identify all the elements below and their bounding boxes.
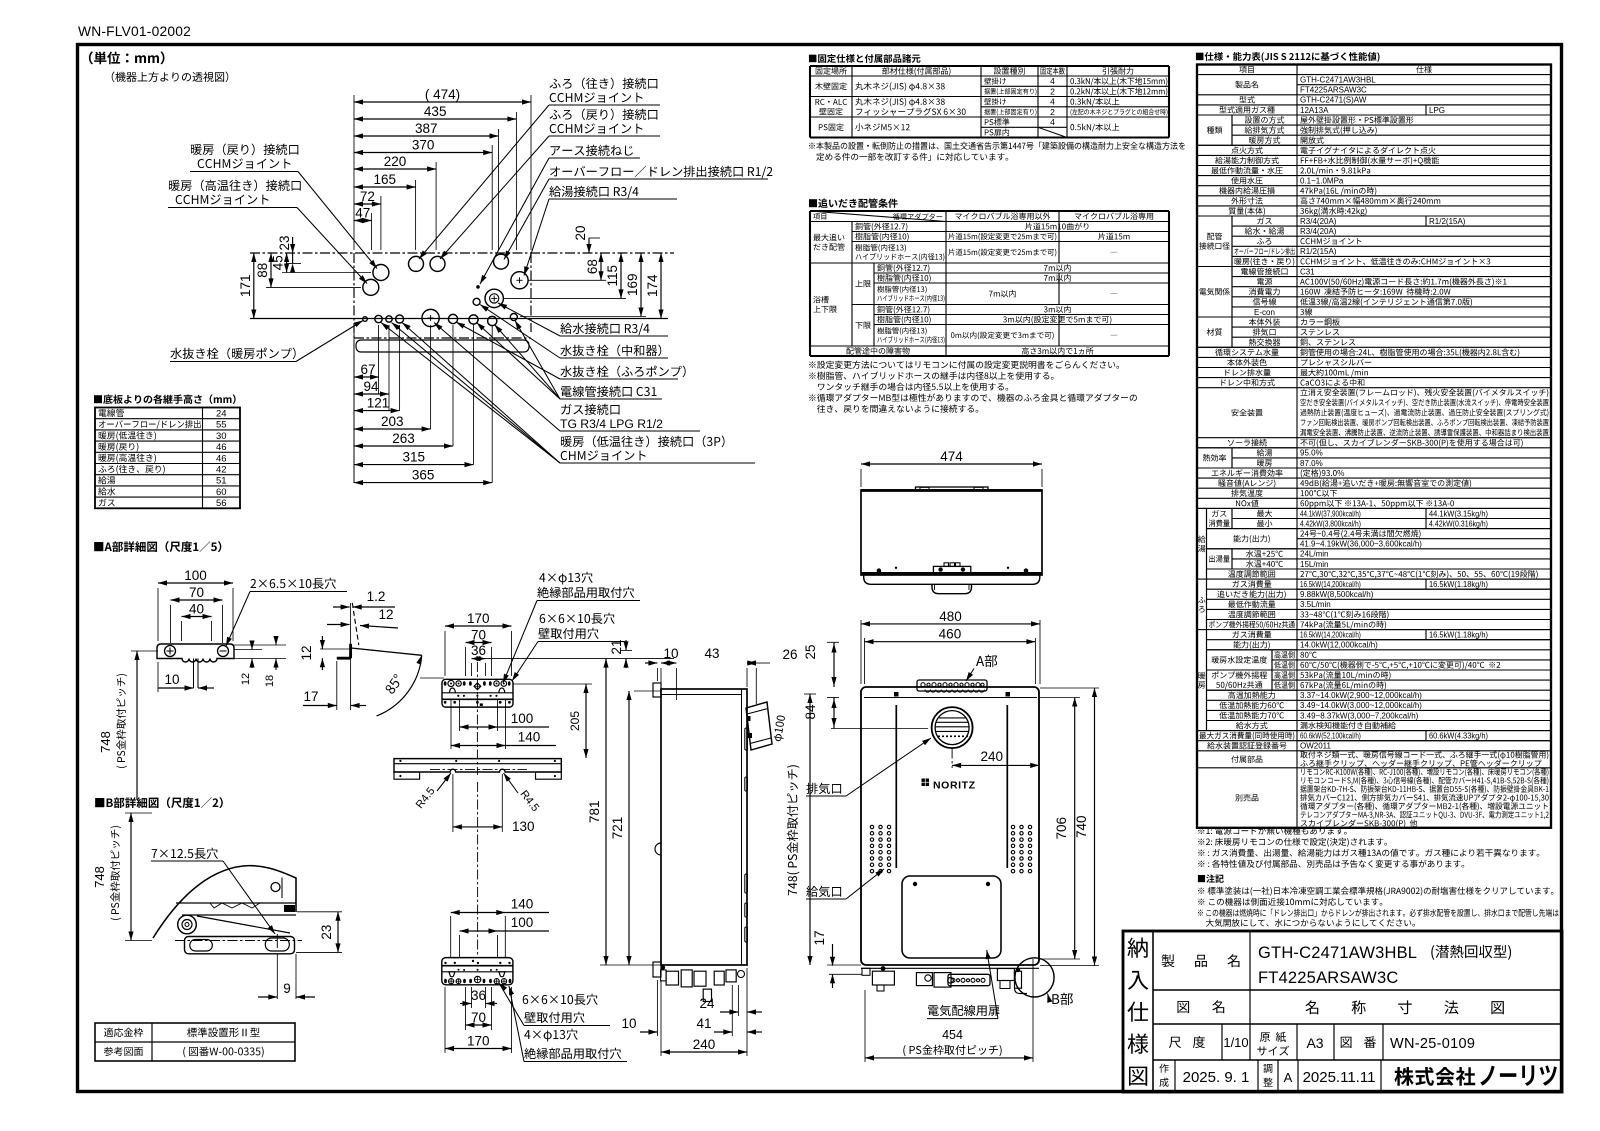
svg-text:2: 2 <box>1050 86 1055 96</box>
svg-text:41: 41 <box>696 1016 711 1031</box>
top view: unit bottom edge <box>354 337 531 339</box>
svg-text:12: 12 <box>299 645 314 660</box>
svg-text:3.49~8.37kW(3,000~7,200kcal/h): 3.49~8.37kW(3,000~7,200kcal/h) <box>1300 711 1419 720</box>
svg-text:LPG: LPG <box>1429 106 1445 115</box>
lower bracket: bottom hole row <box>449 979 454 984</box>
side view: bottom-left tab <box>653 962 661 977</box>
reheat piping notes <box>809 361 1119 369</box>
svg-text:435: 435 <box>424 104 447 119</box>
svg-text:25: 25 <box>803 644 818 659</box>
svg-text:FT4225ARSAW3C: FT4225ARSAW3C <box>1258 969 1398 987</box>
svg-text:748: 748 <box>92 866 107 888</box>
top view: left labels with leaders <box>191 144 298 156</box>
side view: 781/721 dims <box>600 964 661 966</box>
title block: product name row <box>1249 931 1251 1024</box>
detail A1: screws <box>165 646 176 657</box>
svg-text:R4.5: R4.5 <box>517 788 541 814</box>
top view: unit top edge line <box>250 252 674 254</box>
front view: electrical access panel <box>902 876 1001 958</box>
svg-text:2025. 9. 1: 2025. 9. 1 <box>1183 1069 1250 1086</box>
detail A1: label 2x6.5x10 slot <box>250 578 335 589</box>
svg-text:203: 203 <box>381 414 404 429</box>
front view: bottom fittings <box>861 967 1039 969</box>
fixing spec table <box>810 65 1169 67</box>
lower bracket: dims above (140/100) <box>450 916 452 958</box>
fixing spec table heading <box>809 54 921 63</box>
svg-text:4: 4 <box>1050 97 1055 107</box>
detail A1: 748 pitch dimension <box>131 650 158 652</box>
front view: 25 dim <box>827 641 839 643</box>
svg-text:4.42kW(3,800kcal/h): 4.42kW(3,800kcal/h) <box>1300 519 1361 529</box>
svg-text:E-con: E-con <box>1254 308 1275 317</box>
spec table notes <box>1198 827 1347 835</box>
svg-text:130: 130 <box>512 819 535 834</box>
top view: left vertical dimensions <box>282 272 371 274</box>
A2: dim 205 <box>513 683 592 685</box>
svg-text:72: 72 <box>360 189 375 204</box>
svg-text:60.6kW(4.33kg/h): 60.6kW(4.33kg/h) <box>1429 731 1488 740</box>
detail A1: top fixing bracket <box>157 644 234 662</box>
detail A1: dims 12/18 <box>234 644 286 646</box>
top view: unit left edge <box>353 253 355 338</box>
applicable frame table <box>95 1023 295 1061</box>
angle: dim 1.2 <box>333 606 350 608</box>
svg-text:24L/min: 24L/min <box>1300 550 1328 559</box>
svg-text:4: 4 <box>1050 76 1055 86</box>
front view: 454 pitch dim bottom <box>864 990 866 1062</box>
svg-text:170: 170 <box>467 1034 490 1049</box>
front view: 17 dim <box>827 964 861 966</box>
svg-text:56: 56 <box>216 498 227 509</box>
svg-text:1.2: 1.2 <box>367 589 386 604</box>
A2: dims above <box>444 631 446 676</box>
front view: 748 pitch dim left <box>804 693 816 695</box>
spec table <box>1239 66 1253 73</box>
detail B: lower plate with slots <box>185 937 295 954</box>
svg-text:263: 263 <box>392 431 415 446</box>
svg-text:454: 454 <box>942 1028 963 1042</box>
angle: dim 17 <box>336 661 338 710</box>
svg-text:740: 740 <box>1074 815 1089 838</box>
front view: 84 dim <box>827 697 839 699</box>
top view: connection holes <box>373 265 389 281</box>
title block: scale row <box>1221 1024 1223 1060</box>
detail B: fan-shaped bracket <box>153 866 296 938</box>
svg-text:36: 36 <box>471 988 486 1003</box>
svg-text:87.0%: 87.0% <box>1300 459 1323 468</box>
title block <box>1123 931 1562 1092</box>
svg-text:387: 387 <box>415 121 438 136</box>
detail A angle piece (85 deg) <box>350 603 352 710</box>
top view: unit bottom row line <box>250 318 668 320</box>
front view: top bracket (A part) <box>917 680 987 691</box>
middle wall rail with R4.5 notches <box>394 759 561 772</box>
svg-text:47: 47 <box>355 206 370 221</box>
lower bracket: dims below (36/70/170) <box>471 987 473 1008</box>
svg-text:R4.5: R4.5 <box>414 785 438 811</box>
svg-text:165: 165 <box>374 172 397 187</box>
svg-text:748: 748 <box>98 731 113 753</box>
svg-text:A3: A3 <box>1306 1035 1323 1051</box>
front view: door seam lines <box>895 705 897 868</box>
svg-text:17: 17 <box>303 689 318 704</box>
svg-text:70: 70 <box>471 1010 486 1025</box>
top view: top dimensions <box>354 101 531 103</box>
svg-text:70: 70 <box>471 628 486 643</box>
svg-text:95.0%: 95.0% <box>1300 449 1323 458</box>
svg-text:2025.11.11: 2025.11.11 <box>1303 1069 1376 1086</box>
svg-text:17: 17 <box>812 930 827 945</box>
svg-text:46: 46 <box>216 442 227 453</box>
rail: dim 130 <box>452 774 454 832</box>
angle: dim 12 left <box>320 648 350 650</box>
A2: dim 36 on long line <box>472 658 486 660</box>
svg-text:44.1kW(37,900kcal/h): 44.1kW(37,900kcal/h) <box>1300 510 1361 519</box>
front cap (top plan) <box>861 490 1042 575</box>
top view: unit right edge <box>530 253 532 332</box>
A2: centre diamond hole <box>474 683 481 690</box>
svg-text:3.49~14.0kW(3,000~12,000kcal/h: 3.49~14.0kW(3,000~12,000kcal/h) <box>1300 701 1422 710</box>
reheat piping table heading <box>809 198 898 208</box>
top view: right vertical dimensions <box>589 237 600 239</box>
svg-text:NORITZ: NORITZ <box>933 780 976 792</box>
detail A1: dim 10 <box>157 662 159 692</box>
top view: bottom dimension extension lines <box>353 325 355 483</box>
svg-text:170: 170 <box>467 611 490 626</box>
detail B: 7x12.5 slot label <box>152 848 218 859</box>
svg-text:121: 121 <box>367 396 390 411</box>
top view: top dimension extension lines <box>353 95 355 250</box>
side view: bottom fittings <box>661 970 667 981</box>
title block: drawing name row <box>1177 1000 1224 1013</box>
svg-text:315: 315 <box>402 450 425 465</box>
front view: bottom bracket (below body) <box>948 974 990 985</box>
svg-text:88: 88 <box>255 263 270 278</box>
svg-text:46: 46 <box>216 453 227 464</box>
svg-text:20: 20 <box>573 225 588 240</box>
svg-text:140: 140 <box>511 897 534 912</box>
svg-text:240: 240 <box>693 1037 716 1052</box>
A2: keyhole bells <box>449 688 455 693</box>
front view: 706/740 dims right <box>1040 697 1080 699</box>
svg-text:240: 240 <box>981 749 1004 764</box>
angle: dim 12 tilt <box>327 624 350 626</box>
fixing table note <box>809 142 1185 150</box>
svg-text:45: 45 <box>271 255 286 270</box>
cap: duct below <box>932 584 972 593</box>
svg-text:GTH-C2471(S)AW: GTH-C2471(S)AW <box>1300 96 1367 105</box>
svg-text:44.1kW(3.15kg/h): 44.1kW(3.15kg/h) <box>1429 509 1488 518</box>
front view: body <box>861 687 1039 965</box>
svg-text:12: 12 <box>378 607 393 622</box>
A2: dots <box>457 695 459 697</box>
lower bracket: keyhole slots <box>449 972 455 977</box>
svg-text:460: 460 <box>939 627 962 642</box>
svg-text:68: 68 <box>585 259 600 274</box>
svg-text:171: 171 <box>238 274 253 297</box>
svg-text:26: 26 <box>782 647 797 662</box>
svg-text:FT4225ARSAW3C: FT4225ARSAW3C <box>1300 86 1367 95</box>
svg-text:40: 40 <box>189 602 204 617</box>
svg-text:70: 70 <box>189 585 204 600</box>
side view: bottom dims 24/41/240/10 <box>737 985 739 1016</box>
svg-text:14.0kW(12,000kcal/h): 14.0kW(12,000kcal/h) <box>1300 641 1378 650</box>
detail B: dim 23 <box>297 911 342 913</box>
side view: left bump <box>655 843 661 855</box>
svg-text:GTH-C2471AW3HBL: GTH-C2471AW3HBL <box>1300 76 1376 85</box>
svg-text:OW2011: OW2011 <box>1300 742 1332 751</box>
svg-text:16.5kW(14,200kcal/h): 16.5kW(14,200kcal/h) <box>1300 580 1361 589</box>
detail B: arm <box>176 902 296 904</box>
svg-text:9: 9 <box>283 981 291 996</box>
svg-text:R3/4(20A): R3/4(20A) <box>1300 227 1337 236</box>
svg-text:R3/4(20A): R3/4(20A) <box>1300 217 1337 226</box>
front view: wiring door label <box>928 1005 999 1016</box>
svg-text:474: 474 <box>940 449 963 464</box>
svg-text:TG R3/4 LPG R1/2: TG R3/4 LPG R1/2 <box>560 417 663 431</box>
svg-text:100: 100 <box>184 568 207 583</box>
side view: body <box>661 689 747 965</box>
svg-text:100: 100 <box>511 711 534 726</box>
front view: NORITZ logo <box>922 779 925 782</box>
svg-text:10: 10 <box>621 1016 636 1031</box>
svg-text:100: 100 <box>511 915 534 930</box>
svg-text:169: 169 <box>625 273 640 296</box>
svg-text:R1/2(15A): R1/2(15A) <box>1300 247 1337 256</box>
svg-text:2: 2 <box>1050 107 1055 117</box>
svg-text:12: 12 <box>240 673 252 685</box>
svg-text:43: 43 <box>704 646 719 661</box>
rail: lower tabs <box>394 772 420 779</box>
side view: top-left tab <box>653 683 661 697</box>
long horizontal reference line to side view <box>486 658 675 660</box>
svg-text:42: 42 <box>216 465 227 476</box>
svg-text:3.5L/min: 3.5L/min <box>1300 600 1331 609</box>
svg-text:23: 23 <box>319 925 334 940</box>
NORITZ company logo <box>1394 1067 1475 1086</box>
front view: vent hole groups <box>870 825 873 828</box>
svg-text:140: 140 <box>518 730 541 745</box>
detail A1: dims <box>157 588 159 641</box>
svg-text:24: 24 <box>699 996 715 1011</box>
svg-text:21: 21 <box>609 639 624 654</box>
svg-text:55: 55 <box>216 420 227 431</box>
side view: exhaust duct (tilted) <box>746 702 772 750</box>
A2: top hole row <box>448 680 454 686</box>
detail A2: wall mounting bracket <box>442 679 513 707</box>
svg-text:94: 94 <box>363 379 379 394</box>
svg-text:4.42kW(0.316kg/h): 4.42kW(0.316kg/h) <box>1429 519 1488 529</box>
detail B: 748 pitch dim <box>125 812 152 814</box>
svg-text:9.88kW(8,500kcal/h): 9.88kW(8,500kcal/h) <box>1300 590 1374 599</box>
svg-text:18: 18 <box>264 675 276 687</box>
front view: exhaust outlet <box>932 707 973 748</box>
svg-text:4: 4 <box>1050 117 1055 127</box>
svg-text:1/10: 1/10 <box>1223 1035 1248 1050</box>
svg-text:( 474): ( 474) <box>425 87 460 102</box>
svg-text:10: 10 <box>663 646 678 661</box>
title block: date row <box>1174 1060 1176 1092</box>
svg-text:15L/min: 15L/min <box>1300 560 1328 569</box>
joint height table heading <box>94 394 236 404</box>
lower bracket: labels right <box>523 994 598 1005</box>
svg-text:365: 365 <box>412 468 435 483</box>
svg-text:WN-25-0109: WN-25-0109 <box>1390 1036 1475 1052</box>
spec table heading <box>1196 52 1380 62</box>
A2: dim 21 <box>625 640 627 650</box>
front view: A part label <box>976 655 997 667</box>
detail A heading <box>94 541 221 552</box>
svg-text:67: 67 <box>360 362 375 377</box>
svg-text:370: 370 <box>412 138 435 153</box>
svg-text:A: A <box>1284 1070 1293 1085</box>
svg-text:30: 30 <box>216 431 227 442</box>
front view: drain elbow in B area <box>1015 971 1022 988</box>
svg-text:60: 60 <box>216 487 227 498</box>
front view: 240 dim <box>952 764 1039 766</box>
side view: top dims 10/43/26 <box>656 668 658 681</box>
svg-text:205: 205 <box>568 711 582 731</box>
cap: screw dots <box>877 568 882 573</box>
top view: bottom dimensions <box>354 376 379 378</box>
detail B: bolt <box>178 915 197 934</box>
svg-text:WN-FLV01-02002: WN-FLV01-02002 <box>78 24 191 39</box>
side view: right side slots <box>745 728 748 750</box>
svg-text:0.1~1.0MPa: 0.1~1.0MPa <box>1300 177 1344 186</box>
svg-text:16.5kW(1.18kg/h): 16.5kW(1.18kg/h) <box>1429 630 1488 639</box>
svg-text:781: 781 <box>587 801 602 824</box>
svg-text:C31: C31 <box>1300 267 1315 276</box>
svg-text:16.5kW(1.18kg/h): 16.5kW(1.18kg/h) <box>1429 580 1488 589</box>
detail A1: hanging tab lines <box>193 659 195 689</box>
svg-text:24: 24 <box>216 409 227 420</box>
svg-text:60.6kW(52,100kcal/h): 60.6kW(52,100kcal/h) <box>1300 732 1361 741</box>
svg-text:721: 721 <box>610 817 625 840</box>
angle: 85 degree arc <box>377 655 422 716</box>
A2: center line <box>476 662 478 775</box>
cap: 474 dim <box>860 469 862 487</box>
rail: centre lines <box>430 769 527 771</box>
svg-text:3.37~14.0kW(2,900~12,000kcal/h: 3.37~14.0kW(2,900~12,000kcal/h) <box>1300 691 1422 700</box>
svg-text:12A13A: 12A13A <box>1300 106 1329 115</box>
svg-text:706: 706 <box>1054 817 1069 840</box>
svg-text:GTH-C2471AW3HBL: GTH-C2471AW3HBL <box>1258 944 1417 962</box>
svg-text:23: 23 <box>277 235 292 250</box>
lower bracket: top dots <box>444 962 446 964</box>
svg-text:16.5kW(14,200kcal/h): 16.5kW(14,200kcal/h) <box>1300 631 1361 640</box>
top view: right labels with leaders <box>549 78 657 90</box>
svg-text:220: 220 <box>384 154 407 169</box>
cap: bottom flange <box>864 576 1040 585</box>
joint height table <box>95 408 240 509</box>
reheat piping table <box>810 210 1169 212</box>
top view: PS bracket outline <box>356 340 529 352</box>
svg-text:36: 36 <box>471 643 486 658</box>
lower wall bracket <box>442 958 513 985</box>
front view: B part circle <box>1015 958 1054 997</box>
svg-text:41.9~4.19kW(36,000~3,600kcal/h: 41.9~4.19kW(36,000~3,600kcal/h) <box>1300 540 1422 549</box>
svg-text:10: 10 <box>164 672 179 687</box>
svg-text:51: 51 <box>216 476 227 487</box>
svg-text:115: 115 <box>605 265 620 287</box>
cap: center bracket with screws <box>933 566 970 572</box>
cap: raised top plate <box>916 487 989 491</box>
A2: labels <box>539 572 592 585</box>
A2: dims below (100/140) <box>459 700 461 731</box>
front view: 480/460 dims <box>860 620 862 684</box>
unit note <box>89 51 165 64</box>
svg-text:480: 480 <box>939 609 962 624</box>
detail B heading <box>95 797 223 808</box>
detail B: dim 9 <box>276 954 278 999</box>
svg-text:174: 174 <box>645 274 660 297</box>
svg-text:R1/2(15A): R1/2(15A) <box>1429 217 1466 226</box>
front view: intake label <box>806 783 841 794</box>
